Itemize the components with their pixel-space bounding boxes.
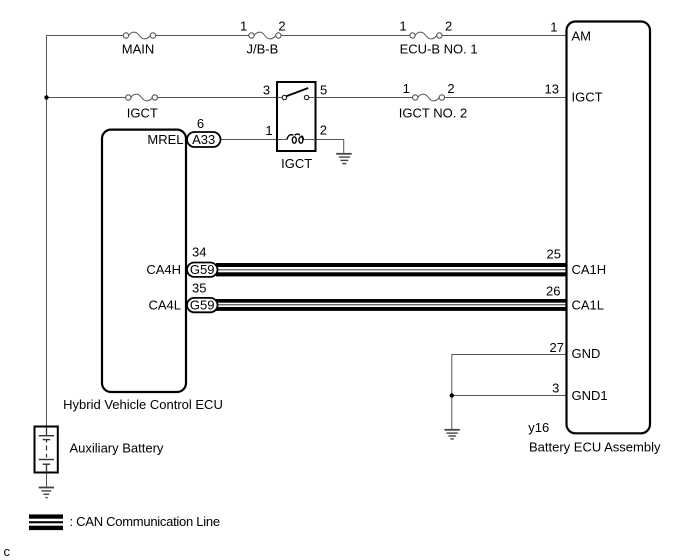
svg-text:IGCT: IGCT [127,105,158,120]
Hybrid Vehicle Control ECU box [102,130,186,392]
relay coil [287,134,304,143]
relay switch wire stub left [277,97,282,99]
svg-text:6: 6 [197,116,204,131]
ground at battery [39,488,54,498]
svg-text:A33: A33 [192,132,215,147]
wire: row2 IGCT fuse to relay pin 3 [157,97,282,99]
fuse MAIN [123,32,155,39]
relay IGCT box [277,82,316,151]
svg-text:5: 5 [320,83,327,98]
ground at relay [336,154,352,164]
svg-text:IGCT NO. 2: IGCT NO. 2 [399,105,467,120]
svg-text:1: 1 [265,123,272,138]
svg-text:Auxiliary Battery: Auxiliary Battery [70,440,164,455]
wire: MREL A33 to relay pin 1 [221,139,288,141]
svg-text:2: 2 [445,18,452,33]
svg-text:CA1L: CA1L [572,298,605,313]
svg-text:GND1: GND1 [572,388,608,403]
fuse IGCT NO. 2 [413,94,445,101]
svg-text:G59: G59 [190,262,215,277]
svg-text:13: 13 [545,82,559,97]
relay coil wire stub right [303,139,315,141]
svg-text:MAIN: MAIN [122,41,155,56]
legend CAN symbol [29,514,63,530]
relay switch blade [286,88,308,96]
svg-text:ECU-B NO. 1: ECU-B NO. 1 [400,41,478,56]
wire: battery to ground [46,473,48,487]
wire: top row, J/B-B to ECU-B NO.1 fuse [281,35,410,37]
fuse IGCT [126,94,158,101]
wire: left vertical bus + top row toward MAIN fuse [47,36,124,427]
wire: row2 relay pin 5 to IGCT NO.2 fuse [309,97,413,99]
svg-text:25: 25 [547,247,561,262]
svg-text:CA1H: CA1H [572,262,607,277]
fuse ECU-B NO. 1 [410,32,442,39]
svg-text:CA4L: CA4L [148,298,181,313]
svg-text:J/B-B: J/B-B [247,41,279,56]
svg-text:MREL: MREL [147,132,183,147]
svg-text:: CAN Communication Line: : CAN Communication Line [70,514,220,529]
svg-text:2: 2 [278,18,285,33]
svg-text:IGCT: IGCT [281,156,312,171]
ground at GND [444,430,459,439]
svg-text:34: 34 [192,245,206,260]
svg-text:2: 2 [320,123,327,138]
wire: relay pin 2 to ground [303,140,343,153]
svg-text:27: 27 [550,340,564,355]
svg-text:c: c [4,544,11,559]
svg-text:1: 1 [550,20,557,35]
svg-text:y16: y16 [528,420,549,435]
relay coil wire stub left [277,139,287,141]
junction dot row2 [44,95,48,99]
svg-text:IGCT: IGCT [572,90,603,105]
svg-text:1: 1 [240,18,247,33]
junction dot GND1 [450,393,454,397]
CAN line CA4H-CA1H [216,263,567,276]
svg-text:35: 35 [192,281,206,296]
CAN line CA4L-CA1L [216,299,567,311]
Battery ECU Assembly box [567,22,651,434]
connector A33 [187,132,221,147]
svg-text:3: 3 [552,381,559,396]
svg-text:26: 26 [546,283,560,298]
svg-text:Hybrid Vehicle Control ECU: Hybrid Vehicle Control ECU [63,397,223,412]
auxiliary battery [35,427,58,473]
relay switch contact right [304,95,308,99]
wire: top row, ECU-B NO.1 to battery ECU pin 1 AM [442,35,567,37]
wire: row2 IGCT NO.2 fuse to battery ECU pin 13 [444,97,566,99]
connector G59 CA4L [187,298,218,313]
wire: GND1 pin 3 [452,395,567,397]
svg-text:1: 1 [403,81,410,96]
svg-text:G59: G59 [190,298,215,313]
connector G59 CA4H [187,262,218,277]
svg-text:CA4H: CA4H [146,262,181,277]
fuse J/B-B [249,32,281,39]
svg-text:Battery ECU Assembly: Battery ECU Assembly [529,439,661,454]
svg-text:3: 3 [263,83,270,98]
wire: GND pin 27 leftward and down [452,355,567,430]
svg-text:2: 2 [447,81,454,96]
relay switch contact left [282,95,286,99]
svg-text:1: 1 [399,18,406,33]
wire: row2 junction to IGCT fuse [47,97,126,99]
relay switch wire stub right [309,97,316,99]
wire: top row, MAIN fuse to J/B-B fuse [156,35,250,37]
svg-text:AM: AM [572,29,592,44]
svg-text:GND: GND [572,346,601,361]
